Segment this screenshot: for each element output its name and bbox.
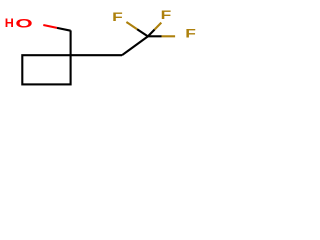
- wire: bond C7-F2 olive half: [155, 23, 162, 30]
- wire: bond C1-C5 (vertical): [70, 30, 72, 55]
- cyclobutane ring: [22, 55, 70, 84]
- wire: bond C1-C6 (horizontal): [71, 54, 122, 56]
- svg-text:H: H: [5, 16, 14, 30]
- wire: bond C7-F3 black half: [148, 35, 162, 37]
- wire: bond C7-F2 black half: [148, 30, 155, 37]
- wire: bond C7-F1 olive half: [126, 22, 137, 29]
- molecule: [1-(2,2,2-trifluoroethyl)cyclobutyl]methanol: [0, 0, 200, 100]
- wire: bond C6-C7 (diagonal): [122, 36, 148, 55]
- svg-text:F: F: [112, 11, 123, 25]
- wire: bond C7-F1 black half: [137, 29, 148, 36]
- wire: bond C7-F3 olive half: [162, 35, 176, 37]
- wire: bond O-C5 black half: [57, 28, 71, 31]
- wire: bond O-C5 red half: [43, 25, 57, 28]
- svg-text:O: O: [15, 17, 32, 30]
- svg-text:F: F: [161, 9, 172, 23]
- svg-text:F: F: [185, 27, 196, 41]
